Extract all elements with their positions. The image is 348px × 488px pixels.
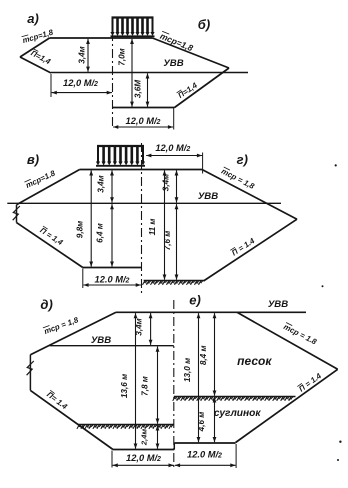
svg-text:песок: песок (237, 354, 272, 368)
dimension 11 m, section g (163, 170, 167, 279)
svg-text:mср=1.8: mср=1.8 (24, 168, 57, 190)
wire: upper slope m=1.8, section v (17, 170, 80, 205)
break mark, section d (27, 361, 34, 375)
dimension 3.6 m, section b (134, 73, 150, 107)
svg-text:г): г) (237, 152, 248, 167)
dimension 3.4 m left, section v (110, 170, 114, 202)
dimension 4.6 m, section e (213, 397, 217, 442)
wire: left vertical edge, section v (16, 205, 18, 223)
dimension 2.4 m, section d (156, 425, 160, 448)
loam boundary line with hatching, section e (173, 397, 296, 401)
dimension line 12.0 m/2, section e (175, 463, 236, 467)
wire: lower slope P=1.4, section a (20, 57, 51, 73)
dimension 3.4 m, section d (135, 313, 153, 345)
break mark, section v (13, 206, 20, 220)
node: UVV water level line, top section (51, 72, 248, 74)
dimension 7.8 m, section d (156, 347, 160, 424)
svg-text:12,0 М/2: 12,0 М/2 (126, 116, 161, 126)
wire: bottom line, section d (113, 449, 174, 451)
svg-text:12.0 М/2: 12.0 М/2 (95, 275, 130, 285)
wire: bottom line, section v (83, 267, 142, 269)
wire: upper slope m=1.8, section a (20, 38, 50, 57)
svg-text:12.0 М/2: 12.0 М/2 (187, 450, 222, 460)
wire: crest and UVV line, sections d-e (116, 311, 306, 313)
speck (339, 441, 341, 443)
svg-text:суглинок: суглинок (214, 408, 262, 419)
wire: upper slope m=1.8, section b (153, 38, 230, 68)
wire: lower slope P=1.4, section e (236, 369, 338, 442)
distributed load on crest, section b (110, 18, 154, 37)
wire: left vertical edge, section d (29, 355, 31, 391)
svg-text:8,4 м: 8,4 м (199, 345, 208, 365)
svg-text:3,6М: 3,6М (134, 80, 143, 98)
dimension 7.6 m, section g (175, 204, 179, 280)
svg-text:д): д) (40, 297, 52, 312)
svg-text:12,0 М/2: 12,0 М/2 (63, 78, 98, 88)
dimension 7.0 m, section b (118, 39, 134, 107)
wire: extension line left, dim 12.0 a (50, 74, 52, 97)
wire: upper slope m=1.8, section e (237, 312, 338, 369)
svg-text:П = 1,4: П = 1,4 (38, 226, 65, 248)
wire: crest line, sections v-g (80, 169, 202, 171)
dimension line 12.0 m/2, section v bottom (83, 283, 140, 287)
dimension line 12.0 m/2, section a (52, 91, 112, 95)
svg-text:3,4м: 3,4м (162, 174, 171, 191)
ground line with hatching, section d (77, 425, 174, 429)
svg-text:е): е) (189, 293, 201, 308)
wire: lower slope P=1.4, section g (204, 219, 298, 281)
dimension 3.4 m right, section g (175, 170, 179, 202)
svg-text:4,6 м: 4,6 м (197, 412, 206, 433)
wire: lower slope P=1.4, section b (175, 68, 230, 108)
dimension 3.4 m, section a (78, 39, 90, 72)
dimension 6.4 m, section v (110, 204, 114, 267)
svg-text:13,0 м: 13,0 м (183, 358, 192, 382)
wire: extension line right, bottom dim e (235, 444, 237, 468)
node: axis of symmetry, middle section (141, 143, 143, 294)
svg-text:mср=1,8: mср=1,8 (159, 31, 195, 53)
wire: extension line left, bottom dim v (82, 269, 84, 289)
wire: extension line, top dim 12.0 g (202, 153, 204, 174)
svg-text:7,0м: 7,0м (118, 48, 127, 65)
dimension 13.6 m, section d (134, 313, 138, 449)
svg-text:12,0 М/2: 12,0 М/2 (126, 453, 161, 463)
svg-text:б): б) (198, 17, 210, 32)
dimension 8.4 m, section e (213, 313, 217, 396)
wire: crest line, sections a-b (50, 37, 153, 39)
svg-text:в): в) (27, 152, 39, 167)
wire: lower slope P=1.4, section v (17, 223, 83, 268)
svg-text:13,6 м: 13,6 м (120, 374, 129, 398)
distributed load on crest, section v (96, 146, 145, 166)
dimension 13.0 m, section e (197, 313, 201, 442)
svg-text:mср=1,8: mср=1,8 (21, 28, 54, 45)
wire: lower slope P=1.4, section d (30, 390, 113, 449)
wire: upper slope m=1.8, section d (30, 312, 116, 354)
svg-text:7,8 м: 7,8 м (141, 376, 150, 396)
svg-text:УВВ: УВВ (268, 299, 288, 310)
node: UVV water level line, middle section (7, 202, 281, 204)
svg-text:УВВ: УВВ (198, 191, 218, 202)
svg-text:mср = 1.8: mср = 1.8 (282, 322, 319, 347)
dimension line 12.0 m/2, section d (113, 463, 174, 467)
dimension line 12.0 m/2, section g top (146, 154, 202, 158)
wire: extension line right, dim 12.0 b (173, 108, 175, 130)
svg-text:УВВ: УВВ (163, 58, 183, 69)
node: axis of symmetry, bottom section (173, 300, 175, 468)
wire: extension line left, bottom dim d (111, 451, 113, 468)
svg-text:3,4м: 3,4м (97, 175, 106, 192)
svg-text:2,4м: 2,4м (140, 429, 149, 447)
speck (335, 164, 337, 166)
svg-text:12,0 М/2: 12,0 М/2 (155, 143, 190, 153)
wire: bottom line, section b (113, 107, 175, 109)
svg-text:7,6 м: 7,6 м (163, 231, 172, 251)
dimension line 12.0 m/2, section b (113, 125, 173, 129)
svg-text:6,4 м: 6,4 м (96, 223, 105, 243)
ground line with hatching, section g (143, 281, 205, 285)
svg-text:9,8м: 9,8м (76, 221, 85, 238)
svg-text:УВВ: УВВ (91, 335, 111, 346)
speck (337, 459, 339, 461)
svg-text:а): а) (27, 11, 39, 26)
svg-text:3,4м: 3,4м (78, 46, 87, 63)
svg-text:П= 1.4: П= 1.4 (45, 390, 69, 412)
node: UVV water level line, section d (50, 345, 174, 347)
node: axis of symmetry, top section (112, 32, 114, 129)
wire: bottom line, section e (174, 442, 235, 444)
wire: step at axis between d and e bottoms (173, 443, 175, 450)
wire: upper slope m=1.8, section g (202, 170, 297, 220)
speck (322, 285, 324, 287)
dimension 9.8 m, section v (89, 170, 93, 266)
svg-text:11 м: 11 м (148, 219, 157, 236)
